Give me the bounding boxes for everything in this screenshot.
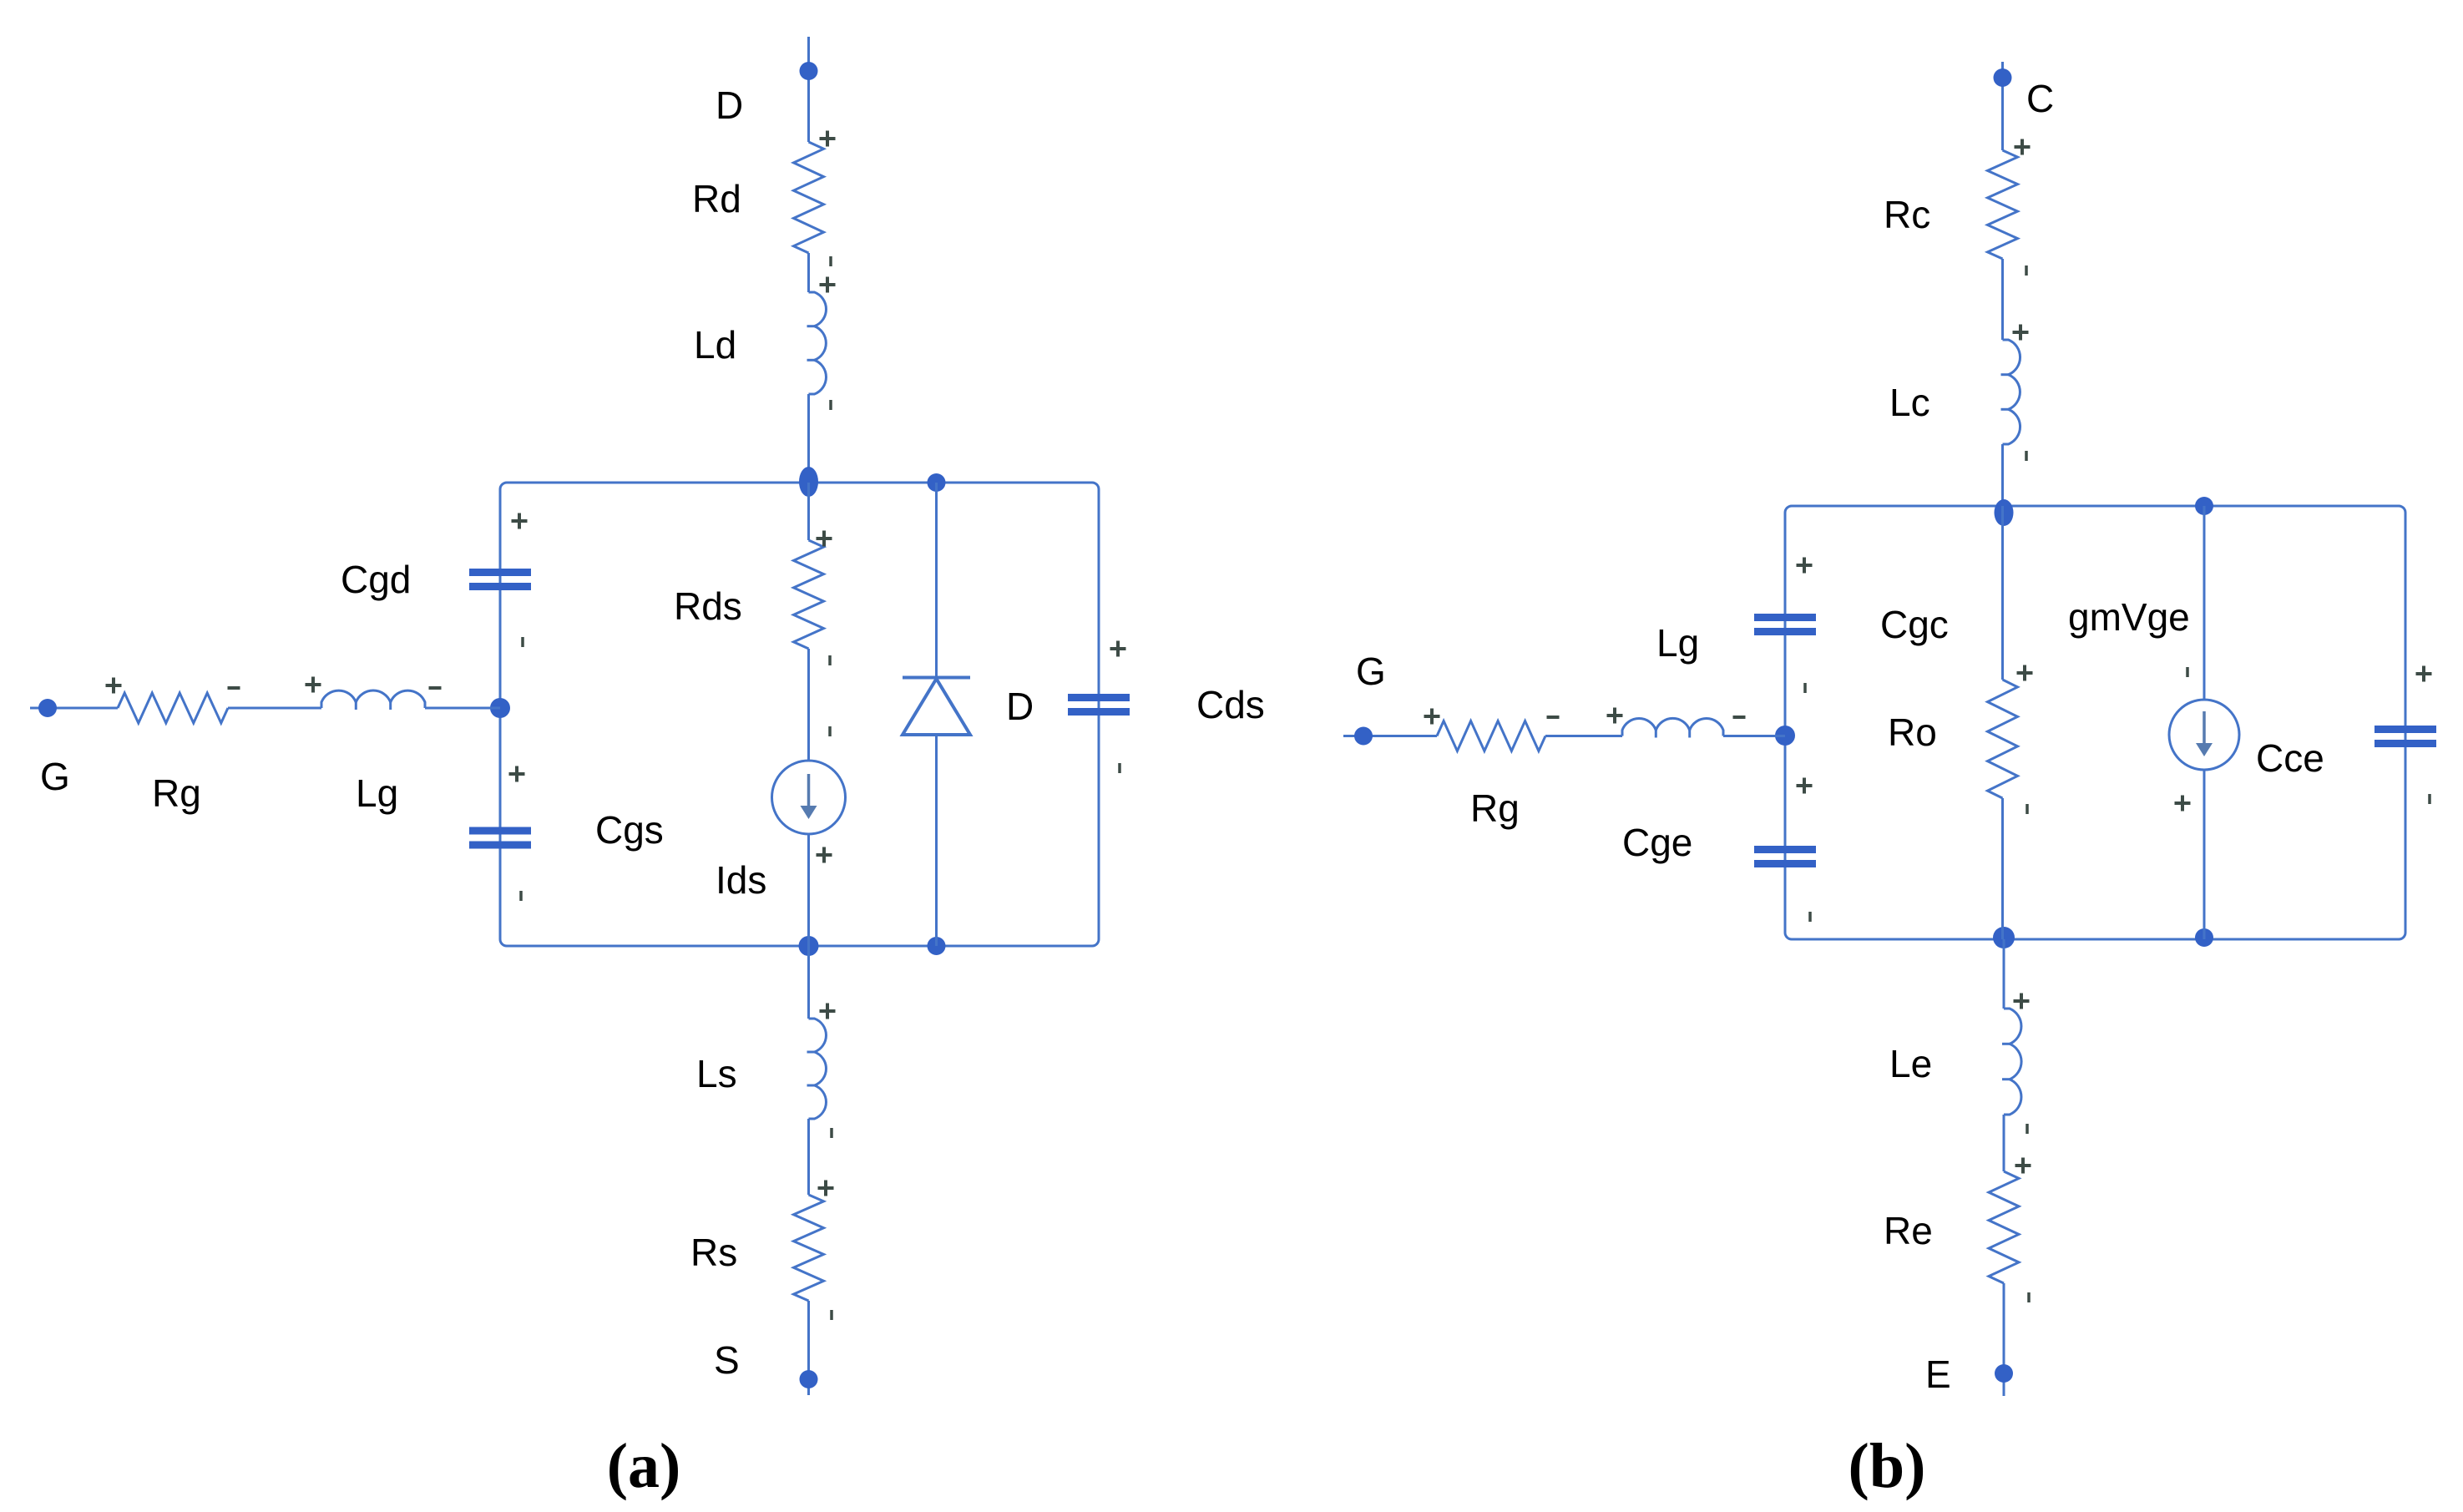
plus sign Lg (a) [306, 683, 321, 686]
terminal G node dot (b) [1354, 727, 1373, 746]
wire box-top to Ro [2001, 506, 2004, 680]
box outline (b) [1785, 506, 2405, 939]
wire Rg to Lg (a) [228, 707, 321, 710]
svg-text:S: S [714, 1338, 740, 1382]
svg-text:Ids: Ids [716, 858, 766, 902]
wire collector lead (b) [2001, 62, 2004, 150]
box outline (a) [500, 483, 1099, 946]
node G-side junction (a) [490, 698, 510, 718]
wire Ro to box-bottom [2001, 798, 2004, 939]
resistor Rs [794, 1195, 824, 1301]
terminal S node dot (a) [800, 1370, 818, 1388]
wire box-top to Rds [807, 483, 810, 540]
inductor Ls [809, 1019, 827, 1119]
plus sign Cgd [512, 519, 528, 523]
terminal D node dot (a) [800, 62, 818, 80]
resistor Rg (a) [118, 693, 228, 723]
capacitor Cce [2374, 726, 2436, 733]
minus sign Rg (a) [228, 686, 240, 690]
capacitor Cgc [1754, 614, 1816, 621]
svg-text:D: D [1006, 685, 1034, 728]
terminal G node dot (a) [38, 699, 57, 717]
wire diode branch upper [935, 483, 938, 677]
wire Rd to Ld [807, 253, 810, 292]
svg-text:D: D [716, 83, 743, 127]
resistor Re [1989, 1171, 2019, 1283]
svg-text:Re: Re [1884, 1209, 1933, 1252]
wire Ids to box-bottom [807, 834, 810, 946]
wire Lg to box (b) [1723, 735, 1785, 737]
plus sign Ro [2017, 671, 2033, 675]
resistor Rg (b) [1437, 721, 1545, 751]
capacitor Cge [1754, 846, 1816, 853]
svg-text:Ro: Ro [1888, 710, 1937, 754]
svg-text:Rg: Rg [1470, 786, 1520, 830]
node G-side junction (b) [1775, 726, 1795, 746]
plus sign Ls [820, 1009, 836, 1013]
minus sign Ids [828, 726, 832, 736]
plus sign Lc [2013, 331, 2029, 334]
capacitor Cgd [469, 569, 531, 576]
svg-text:G: G [40, 755, 70, 798]
minus sign Lc [2025, 451, 2028, 461]
svg-text:Cgs: Cgs [595, 808, 664, 852]
wire Rg to Lg (b) [1545, 735, 1622, 737]
wire Lg to box (a) [425, 707, 500, 710]
wire drain lead (a) [807, 37, 810, 142]
inductor Lg (b) [1622, 718, 1723, 736]
plus sign Re [2015, 1164, 2031, 1167]
minus sign Ro [2026, 804, 2029, 814]
svg-text:Rd: Rd [692, 177, 741, 220]
svg-text:C: C [2026, 77, 2054, 120]
wire Rc to Lc [2001, 259, 2004, 340]
svg-text:Rc: Rc [1884, 193, 1930, 236]
minus sign Cgs [519, 891, 523, 901]
minus sign Lg (a) [429, 686, 442, 690]
minus sign Le [2026, 1124, 2029, 1134]
junction dot top-mid (a) [799, 467, 818, 497]
minus sign Cge [1808, 912, 1812, 922]
minus sign Re [2027, 1292, 2031, 1302]
capacitor Cds [1068, 694, 1130, 701]
svg-text:Le: Le [1889, 1042, 1932, 1085]
wire gate lead (a) [30, 707, 118, 710]
svg-text:G: G [1356, 650, 1386, 693]
plus sign Ids [817, 853, 832, 857]
inductor Lg (a) [321, 690, 425, 708]
junction dot bottom-diode (a) [928, 937, 946, 955]
inductor Ld [809, 292, 827, 394]
plus sign Cce [2416, 672, 2432, 675]
minus sign Lg (b) [1733, 716, 1746, 719]
plus sign Lg (b) [1607, 714, 1623, 717]
svg-text:Rds: Rds [674, 584, 742, 628]
wire gate lead (b) [1343, 735, 1437, 737]
svg-text:Lg: Lg [1656, 621, 1699, 665]
svg-text:(a): (a) [607, 1431, 681, 1501]
wire Ld to box (a) [807, 394, 810, 483]
terminal C node dot (b) [1994, 68, 2012, 87]
minus sign Cds [1118, 763, 1121, 773]
junction dot top-source (b) [2195, 497, 2213, 515]
plus sign Rc [2015, 145, 2031, 149]
junction dot bottom-mid (b) [1993, 927, 2015, 948]
plus sign Le [2014, 999, 2030, 1003]
minus sign Cgd [521, 637, 524, 647]
minus sign Rds [828, 655, 832, 665]
svg-text:Cgc: Cgc [1880, 603, 1949, 646]
junction dot bottom-source (b) [2195, 928, 2213, 947]
minus sign gmVge [2186, 667, 2189, 677]
wire Rds to Ids [807, 649, 810, 761]
svg-text:Rg: Rg [152, 771, 201, 815]
resistor Rd [794, 142, 824, 253]
svg-text:Lc: Lc [1889, 381, 1930, 424]
wire Le to Re [2003, 1115, 2005, 1171]
wire gm branch lower [2203, 769, 2206, 939]
current source gmVge [2169, 700, 2239, 770]
junction dot top-mid (b) [1995, 499, 2014, 526]
wire box-bottom to Ls [807, 946, 810, 1019]
svg-text:gmVge: gmVge [2068, 595, 2190, 639]
minus sign Rs [830, 1310, 833, 1320]
svg-text:Cce: Cce [2256, 736, 2324, 780]
svg-text:Cgd: Cgd [341, 558, 411, 601]
plus sign Cgs [509, 772, 525, 776]
minus sign Ld [829, 400, 832, 410]
capacitor Cgs [469, 827, 531, 835]
plus sign Rs [818, 1186, 834, 1190]
svg-text:Ls: Ls [696, 1052, 737, 1095]
wire box-bottom to Le [2003, 939, 2005, 1009]
minus sign Ls [830, 1128, 833, 1138]
plus sign Cds [1110, 647, 1126, 650]
svg-text:Ld: Ld [694, 323, 736, 367]
minus sign Rc [2025, 265, 2028, 276]
plus sign Cgc [1797, 564, 1813, 567]
plus sign gmVge [2175, 802, 2191, 805]
plus sign Rds [817, 537, 832, 540]
inductor Le [2004, 1009, 2021, 1115]
plus sign Cge [1797, 784, 1813, 787]
plus sign Rg (a) [106, 684, 122, 687]
svg-text:Lg: Lg [356, 771, 398, 815]
svg-text:E: E [1925, 1353, 1951, 1396]
svg-text:(b): (b) [1849, 1431, 1926, 1501]
inductor Lc [2003, 340, 2020, 444]
diode D body [903, 676, 970, 680]
junction dot top-diode (a) [928, 473, 946, 492]
svg-text:Cge: Cge [1622, 821, 1692, 864]
wire diode branch lower [935, 735, 938, 946]
minus sign Rd [829, 256, 832, 266]
minus sign Rg (b) [1547, 716, 1560, 719]
resistor Rds [794, 540, 824, 649]
junction dot bottom-mid (a) [799, 936, 819, 956]
resistor Ro [1988, 680, 2018, 798]
wire Ls to Rs [807, 1119, 810, 1195]
minus sign Cce [2428, 794, 2431, 804]
wire Rs to S [807, 1301, 810, 1395]
wire Lc to box (b) [2001, 444, 2004, 506]
wire gm branch upper [2203, 506, 2206, 700]
svg-text:Cds: Cds [1196, 683, 1265, 726]
current source Ids [772, 761, 846, 834]
wire Re to E [2003, 1283, 2005, 1396]
svg-text:Rs: Rs [690, 1231, 737, 1274]
terminal E node dot (b) [1995, 1364, 2013, 1383]
plus sign Ld [820, 283, 836, 286]
minus sign Cgc [1803, 683, 1807, 693]
resistor Rc [1988, 150, 2018, 259]
plus sign Rg (b) [1424, 715, 1440, 718]
plus sign Rd [820, 137, 836, 140]
